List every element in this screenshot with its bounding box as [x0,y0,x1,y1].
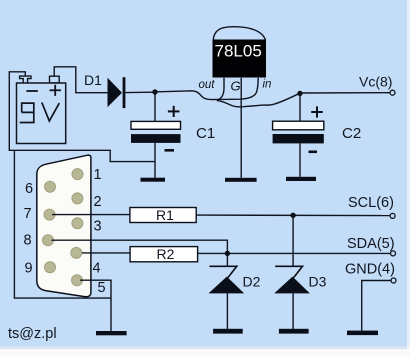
connector J1 pin 5 [72,275,83,286]
regulator U1 dome outline [213,27,265,41]
connector J1 pin 9 [45,262,56,273]
wire R2 to SDA terminal [198,252,390,254]
svg-text:5: 5 [98,280,106,296]
battery positive terminal [50,76,60,83]
svg-text:R2: R2 [157,246,175,262]
svg-text:C1: C1 [196,125,215,142]
svg-text:9: 9 [25,261,33,277]
svg-text:8: 8 [24,233,32,249]
terminal Vc(8) circle [390,90,395,95]
svg-text:2: 2 [94,194,102,210]
ground under D2 [213,329,243,334]
svg-text:out: out [199,79,216,91]
connector J1 pin 1 [72,169,83,180]
svg-text:ts@z.pl: ts@z.pl [8,326,57,342]
wire battery positive up and over to D1 [54,67,108,93]
svg-text:in: in [263,79,272,91]
connector J1 pin 3 [72,218,83,229]
ground under GND terminal [347,331,378,336]
svg-text:D1: D1 [84,72,102,88]
node A junction dot [152,89,157,94]
wire pin 5 to ground [80,280,111,331]
wire node A to regulator in lead [158,78,259,100]
wire pin 8 over R2 down to node D [52,240,228,266]
svg-text:SCL(6): SCL(6) [348,195,394,211]
terminal SCL(6) circle [390,213,395,218]
diode D1 [108,77,126,108]
connector J1 pin 7 [44,209,55,220]
connector J1 DB9 outline [37,155,91,297]
capacitor C2 negative plate [273,134,324,143]
wire C1 to ground [154,143,156,178]
wire pin 7 to R1 [52,214,130,216]
svg-text:D2: D2 [243,274,261,290]
capacitor C1 positive plate [131,121,181,129]
svg-text:D3: D3 [309,274,327,290]
svg-text:R1: R1 [156,207,174,223]
ground under regulator G lead [225,178,257,182]
wire C2 to ground [299,143,301,176]
wire battery negative to left rail and down to C1 ground node [9,72,155,162]
svg-text:7: 7 [24,206,32,222]
node C junction dot on SCL line [290,213,295,218]
wire node C down to D3 [292,215,294,265]
wire pin 4 to R2 [82,252,130,254]
wire R1 to SCL terminal [196,214,390,217]
svg-text:78L05: 78L05 [215,42,262,61]
svg-text:1: 1 [94,167,102,183]
regulator U1 78L05 body [213,40,267,78]
svg-text:4: 4 [93,261,101,277]
capacitor C1 negative plate [131,134,181,143]
svg-text:6: 6 [25,181,33,197]
resistor R1 [130,207,196,223]
battery BT1 9V body [17,83,66,144]
terminal SDA(5) circle [391,251,396,256]
battery minus sign [26,90,38,92]
zener diode D3 [274,266,310,293]
wire D1 cathode to node A [125,91,153,93]
svg-text:SDA(5): SDA(5) [347,236,395,252]
terminal GND(4) circle [391,278,396,283]
capacitor C2 plus sign [311,106,323,117]
battery negative terminal [20,76,31,83]
battery 9V value glyph V [42,102,60,121]
svg-text:Vc(8): Vc(8) [359,74,392,90]
wire D3 to ground [292,293,294,329]
ground under D3 [279,329,309,334]
wire node B down to C2 [299,93,301,121]
wire GND terminal to ground [362,281,391,331]
node D junction dot on SDA line [225,251,230,256]
wire left rail branch down to DB9 pin5 ground run [14,150,111,298]
zener diode D2 [209,266,245,293]
node B junction dot [297,91,302,96]
capacitor C1 plus sign [168,106,180,117]
capacitor C1 minus sign [165,149,175,152]
regulator U1 ground lead [240,78,242,178]
resistor R2 [130,246,198,262]
ground under C2 [286,177,316,181]
ground under pin 5 [96,331,127,335]
connector J1 pin 4 [71,247,82,258]
battery 9V value glyph 9 [20,103,34,122]
svg-text:C2: C2 [342,125,361,142]
connector J1 pin 2 [72,193,83,204]
capacitor C2 minus sign [309,151,318,154]
ground under C1 [141,178,166,182]
capacitor C2 positive plate [273,121,324,130]
svg-text:3: 3 [94,219,102,235]
wire node A down to C1 [154,92,156,121]
connector J1 pin 6 [45,181,56,192]
svg-text:GND(4): GND(4) [345,262,395,278]
svg-text:G: G [231,79,241,94]
wire regulator out lead to node B [217,78,300,107]
wire node B to Vc terminal [300,92,390,94]
connector J1 pin 8 [43,235,54,246]
wire D2 to ground [226,293,228,329]
battery plus sign [50,85,61,96]
